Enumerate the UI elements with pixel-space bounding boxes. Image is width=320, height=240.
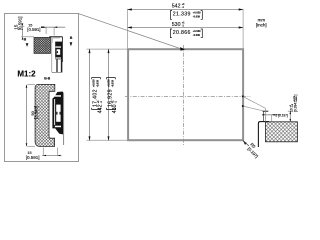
B-B roller / seal assembly [52,92,63,145]
R5 leader + text [243,140,259,158]
dim 542 line [127,8,243,10]
svg-text:17.402: 17.402 [93,89,99,107]
svg-text:442: 442 [97,104,103,113]
dim text 530 +1/-1 [172,21,185,28]
svg-text:430: 430 [112,104,118,113]
svg-text:[3.543]: [3.543] [33,106,38,119]
svg-text:21.339: 21.339 [173,12,191,18]
dim text 542 +1/-1 [172,3,185,9]
svg-text:-0.039: -0.039 [111,79,114,87]
section cut marker B left [24,38,29,47]
section cut marker B right [70,36,73,46]
svg-text:B-B: B-B [44,77,51,81]
rotated dim text 442 +1/-1 [97,100,104,113]
dim 530 line [127,26,243,28]
seal detail horizontal dim 5 [0.197] [262,108,288,122]
svg-text:-0.059: -0.059 [296,96,298,103]
extension lines [127,9,129,49]
horizontal centerline [125,96,251,98]
svg-text:+0.039: +0.039 [108,79,111,87]
seal detail block (bottom right) [266,122,298,142]
svg-text:20.866: 20.866 [173,30,191,36]
plan top dim 15 [0.591] [27,24,65,36]
seal detail vertical dim 10 [0.394] (rotated) [288,95,298,122]
svg-text:530: 530 [172,22,181,28]
svg-text:-0.039: -0.039 [193,15,201,18]
dim 442 line [89,49,91,141]
vertical centerline [183,45,185,147]
svg-text:[0.591]: [0.591] [27,27,40,32]
dim text [21.339 +0.039/-0.039] [170,11,202,20]
svg-text:+0.039: +0.039 [193,30,201,33]
svg-text:[inch]: [inch] [256,22,267,27]
svg-text:]: ] [294,95,298,96]
svg-text:+0.039: +0.039 [93,79,96,87]
svg-text:[0.591]: [0.591] [26,155,40,160]
svg-text:[0.591]: [0.591] [18,17,23,31]
svg-text:5 [0.197]: 5 [0.197] [275,113,288,117]
plan view gasket strip [49,37,62,73]
svg-text:[0.394: [0.394 [294,103,298,112]
rotated dim text [16.929 +0.039/-0.039] [107,78,116,110]
plan view hatch square [34,37,51,53]
dim text [20.866 +0.039/-0.039] [170,29,202,38]
rotated dim text [17.402 +0.039/-0.039] [92,78,101,110]
leaders to seal detail [242,96,266,111]
svg-text:+0.039: +0.039 [193,12,201,15]
B-B section channel profile [35,84,55,146]
rotated dim text 430 +1/-1 [112,100,119,113]
svg-text:M1:2: M1:2 [17,70,36,79]
svg-text:-0.039: -0.039 [193,34,201,37]
svg-text:B: B [24,38,27,42]
seal profile (lip + curl) [258,111,269,147]
svg-text:16.929: 16.929 [108,89,114,107]
leader from detail box to main view [79,14,181,49]
main rectangle [128,49,243,140]
B-B dim 90 [3.543] (rotated) [26,85,39,147]
svg-text:B: B [70,36,73,40]
plan left dim 15 [0.591] (rotated) [13,17,34,40]
detail box frame [5,14,79,162]
svg-text:-0.039: -0.039 [96,79,99,87]
dim 430 line [108,49,110,141]
B-B bottom dim 15 [0.591] [26,148,62,161]
svg-text:542: 542 [172,3,181,9]
